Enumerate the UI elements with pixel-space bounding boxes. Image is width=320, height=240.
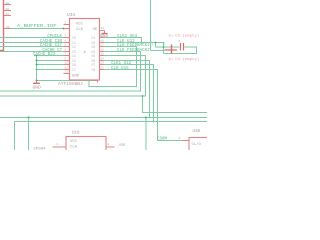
U34 right pin names (92, 36, 96, 72)
svg-text:13: 13 (101, 62, 105, 65)
svg-text:11: 11 (101, 27, 105, 30)
wire O5 (0, 56, 146, 97)
svg-text:4: 4 (179, 40, 181, 43)
net CLK_U12 wire (105, 43, 164, 54)
svg-text:1: 1 (57, 143, 59, 146)
svg-text:O1: O1 (92, 36, 96, 40)
svg-text:21: 21 (6, 26, 10, 29)
net CACHE_B23 wire (34, 55, 64, 57)
svg-text:3: 3 (152, 44, 154, 47)
net CLK1_U12 wire (105, 65, 154, 122)
U34 right pins (100, 38, 105, 70)
svg-text:29: 29 (6, 8, 10, 11)
net CACHE_C7 wire (0, 51, 64, 53)
wire vertical main clock (150, 0, 152, 51)
wire after C3 loop (164, 47, 197, 54)
IC U18 body (66, 137, 106, 155)
svg-text:14: 14 (101, 58, 105, 61)
wire branch (37, 60, 64, 62)
svg-text:CLK: CLK (76, 28, 84, 32)
svg-text:3: 3 (164, 43, 166, 46)
U18 left pin (53, 146, 67, 148)
svg-text:CLK: CLK (70, 145, 78, 149)
ground GND left (36, 81, 38, 83)
svg-text:O8: O8 (92, 68, 96, 72)
pin 31 (4, 15, 11, 17)
svg-text:13: 13 (65, 71, 69, 74)
wire branch (37, 64, 64, 66)
svg-text:U1B: U1B (193, 130, 201, 134)
svg-text:OE: OE (93, 28, 98, 32)
svg-text:A_BUFFER.IOF: A_BUFFER.IOF (17, 24, 57, 29)
node junction on bus (27, 116, 29, 118)
net CLK_FEEDBACK2 wire (0, 52, 141, 92)
svg-text:10: 10 (65, 62, 69, 65)
wire branch to right bus (143, 96, 208, 113)
marker inside U34 (84, 51, 87, 53)
U34 pin OE stub (100, 30, 105, 32)
svg-text:CLK FEEDBACK1: CLK FEEDBACK1 (117, 44, 150, 48)
wire ground net under chip (37, 80, 98, 82)
wire vertical clock 2 (155, 43, 157, 48)
svg-text:CLK2 U53: CLK2 U53 (117, 35, 138, 39)
pin 21 (4, 28, 12, 30)
net CS0M wire (158, 140, 183, 142)
svg-text:28: 28 (6, 2, 10, 5)
svg-text:8: 8 (108, 143, 110, 146)
svg-text:I2: I2 (72, 45, 76, 49)
capacitor C3 (180, 43, 182, 51)
U34 left pins (64, 25, 70, 74)
connector left component body edge (0, 0, 4, 51)
svg-text:12: 12 (101, 67, 105, 70)
svg-text:I0: I0 (72, 36, 76, 40)
U34 GND pin 10 stub (97, 80, 99, 83)
U1B left pin (182, 140, 189, 142)
net CLK_U15 wire (105, 70, 158, 141)
svg-text:2: 2 (65, 22, 67, 25)
svg-text:CPUCLK: CPUCLK (47, 35, 62, 39)
svg-text:I6: I6 (72, 63, 76, 67)
svg-text:GND: GND (33, 84, 42, 90)
svg-text:CL/O: CL/O (192, 142, 202, 147)
svg-text:U34: U34 (67, 12, 75, 18)
svg-text:15: 15 (101, 53, 105, 56)
net A_BUFFER.IOF wire (12, 28, 64, 30)
junction (63, 28, 65, 30)
svg-text:11: 11 (65, 67, 69, 70)
wire cap row (156, 46, 180, 48)
U18 right pin (106, 146, 115, 148)
net CACHE_C20 wire (0, 42, 64, 44)
svg-text:1u C4 (empty): 1u C4 (empty) (168, 57, 199, 62)
svg-text:GND: GND (72, 75, 80, 79)
svg-text:O7: O7 (92, 63, 96, 67)
U34 left pin names (72, 36, 76, 72)
IC U34 body (70, 19, 100, 81)
pin 29 (4, 10, 11, 12)
wire cap row 2 (151, 50, 165, 52)
wire vertical branch (36, 56, 38, 81)
svg-text:CLK1 U12: CLK1 U12 (111, 62, 132, 66)
net CACHE_C17 wire (0, 46, 64, 48)
svg-text:CLK U15: CLK U15 (111, 67, 129, 71)
svg-text:ATF16V8BJ: ATF16V8BJ (58, 81, 83, 87)
svg-text:18: 18 (101, 40, 105, 43)
svg-text:I7: I7 (72, 68, 76, 72)
svg-text:16: 16 (101, 49, 105, 52)
capacitor C4 (171, 45, 173, 54)
svg-text:O3: O3 (92, 45, 96, 49)
wire O6 (105, 61, 150, 118)
svg-text:U18: U18 (72, 131, 80, 135)
wire drop x146 (145, 118, 147, 151)
net CLK_FEEDBACK1 wire (89, 47, 137, 87)
svg-text:19: 19 (101, 35, 105, 38)
svg-text:CLK FEEDBACK2: CLK FEEDBACK2 (117, 49, 150, 53)
svg-text:O5: O5 (92, 54, 96, 58)
svg-text:CP084: CP084 (34, 147, 47, 150)
svg-text:CS0M: CS0M (157, 138, 168, 142)
svg-text:/RD: /RD (118, 143, 126, 148)
IC U1B body right (189, 138, 214, 155)
svg-text:31: 31 (6, 13, 10, 16)
net CLK2_U53 wire (105, 38, 142, 43)
net CPUCLK wire (0, 37, 64, 39)
svg-text:2: 2 (179, 137, 181, 140)
svg-text:17: 17 (101, 44, 105, 47)
svg-text:VCC: VCC (76, 23, 84, 27)
wire drop to U18 (28, 118, 30, 151)
svg-text:VCC: VCC (70, 140, 78, 144)
svg-text:I4: I4 (72, 54, 76, 58)
svg-text:1u C3 (empty): 1u C3 (empty) (168, 34, 199, 39)
pin 28 (4, 4, 11, 6)
svg-text:CACHE C17: CACHE C17 (40, 44, 63, 48)
ground GND at OE (104, 31, 106, 34)
node junction (36, 55, 38, 57)
